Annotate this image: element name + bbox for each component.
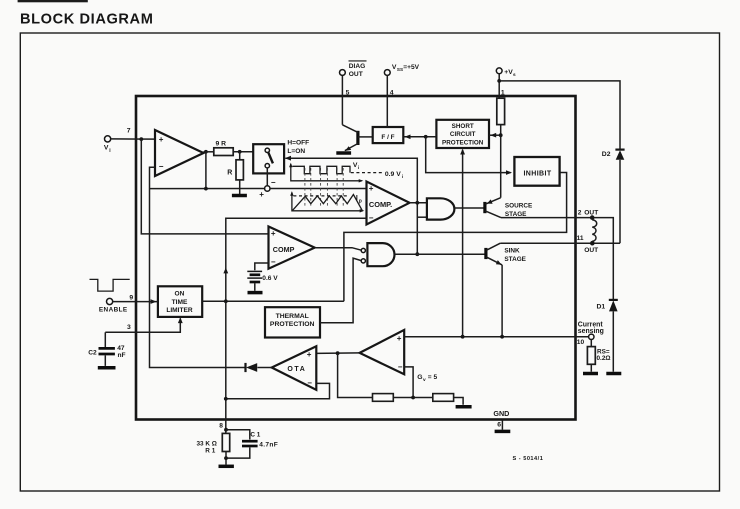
- wire summing node to COMP1 +: [270, 188, 367, 190]
- wire summing line: [150, 188, 265, 190]
- svg-text:GND: GND: [493, 409, 509, 418]
- svg-text:=+5V: =+5V: [403, 64, 419, 71]
- ground pin 6: [495, 430, 511, 434]
- wire 9R to switch: [233, 151, 253, 153]
- svg-text:CIRCUIT: CIRCUIT: [450, 131, 476, 138]
- svg-text:ON: ON: [175, 291, 185, 298]
- summing node circle: [259, 178, 276, 199]
- wire SCP sense vertical: [460, 149, 465, 337]
- enable pulse glyph: [90, 279, 130, 291]
- svg-text:OUT: OUT: [584, 209, 598, 216]
- node divider tap: [238, 150, 242, 154]
- title BLOCK DIAGRAM: [20, 12, 153, 28]
- svg-text:−: −: [271, 178, 276, 187]
- wire SCP to Vs rail: [489, 133, 501, 138]
- battery 0.6V: [247, 271, 278, 290]
- node pin8 top: [224, 428, 228, 432]
- wire Gv output to OTA plus: [316, 352, 359, 355]
- wire Gv minus divider: [404, 367, 413, 398]
- ground under R: [232, 194, 247, 198]
- node F/F inhibit branch: [424, 135, 428, 139]
- svg-text:S - 5014/1: S - 5014/1: [513, 456, 544, 462]
- svg-text:2: 2: [578, 209, 582, 216]
- wire timing vertical pin 8: [225, 301, 227, 433]
- switch box: [253, 140, 309, 174]
- svg-text:+: +: [259, 190, 264, 199]
- resistor RS: [587, 340, 610, 365]
- svg-text:11: 11: [577, 235, 584, 242]
- wire switch control from COMP1 output: [285, 156, 418, 254]
- svg-text:OUT: OUT: [349, 71, 363, 78]
- node OTA plus branch: [336, 351, 340, 355]
- svg-text:nF: nF: [118, 352, 126, 359]
- node op-amp output: [204, 150, 208, 154]
- wire +Vs to D2: [499, 81, 620, 149]
- svg-text:7: 7: [127, 128, 131, 135]
- wire to INHIBIT: [426, 137, 512, 175]
- svg-text:BLOCK DIAGRAM: BLOCK DIAGRAM: [20, 12, 153, 28]
- dashed 0.9Vi level: [351, 171, 403, 180]
- svg-text:D2: D2: [602, 151, 611, 158]
- wire enable: [112, 299, 157, 304]
- wire op-amp output to 9R: [204, 151, 214, 153]
- terminal Vss pin 4: [384, 64, 419, 97]
- svg-text:PROTECTION: PROTECTION: [442, 139, 484, 146]
- svg-text:33 K Ω: 33 K Ω: [197, 440, 217, 447]
- svg-text:0.9 V: 0.9 V: [385, 171, 401, 178]
- transistor source stage: [485, 198, 533, 218]
- svg-text:STAGE: STAGE: [505, 211, 527, 218]
- pin 6 GND: [493, 409, 509, 430]
- wire R1 bottom to ground: [225, 452, 227, 465]
- box INHIBIT: [514, 157, 559, 186]
- svg-text:OUT: OUT: [584, 247, 598, 254]
- ground R1: [219, 465, 234, 469]
- svg-text:SINK: SINK: [504, 247, 520, 254]
- node R1 C1 bottom: [224, 456, 228, 460]
- svg-text:+: +: [369, 184, 374, 193]
- svg-text:+: +: [307, 350, 312, 359]
- wire divider top: [338, 353, 373, 397]
- comparator COMP2: [269, 227, 315, 269]
- node AND2 output tie: [415, 252, 419, 256]
- svg-text:−: −: [271, 257, 276, 266]
- wire sink emitter to sense: [501, 265, 503, 337]
- dash-dot sampling verticals: [305, 168, 343, 208]
- wire Vi to COMP2 +: [141, 139, 268, 234]
- svg-text:v: v: [423, 378, 426, 383]
- waveform Vi square plot: [289, 162, 363, 183]
- wire RS to ground: [590, 364, 592, 371]
- node divider mid: [411, 396, 415, 400]
- svg-text:COMP: COMP: [273, 245, 295, 254]
- box thermal protection: [265, 307, 320, 337]
- node timing rail: [224, 299, 228, 303]
- svg-text:−: −: [398, 362, 403, 371]
- box ON TIME LIMITER: [158, 286, 202, 317]
- ground battery: [248, 291, 263, 295]
- ground C2: [98, 366, 116, 370]
- diode OTA output: [246, 363, 272, 372]
- svg-text:INHIBIT: INHIBIT: [523, 170, 551, 177]
- comparator COMP1: [367, 182, 410, 225]
- wire pin4 to F/F: [386, 75, 388, 127]
- wire source collector to OUT2: [501, 218, 613, 300]
- svg-text:SOURCE: SOURCE: [505, 202, 533, 209]
- resistor RB: [433, 394, 454, 402]
- capacitor C2: [88, 332, 125, 366]
- drawing number: [513, 456, 544, 462]
- wire SCP to F/F: [403, 135, 436, 140]
- svg-text:0.2Ω: 0.2Ω: [597, 355, 611, 362]
- node +Vs branch: [497, 79, 501, 83]
- svg-text:s: s: [513, 73, 516, 78]
- capacitor C1: [226, 430, 278, 458]
- ground diag emitter: [336, 151, 351, 155]
- wire sink collector to OUT11: [500, 242, 620, 244]
- svg-text:THERMAL: THERMAL: [276, 313, 309, 320]
- ground RS: [583, 372, 598, 376]
- wire AND2 output to sink base: [395, 253, 486, 255]
- svg-text:i: i: [358, 165, 359, 171]
- box short circuit protection: [436, 120, 489, 148]
- node Vi tap: [139, 137, 143, 141]
- svg-text:LIMITER: LIMITER: [166, 307, 193, 314]
- error amp Gv: [360, 330, 438, 383]
- svg-text:4: 4: [390, 90, 394, 97]
- svg-text:C 1: C 1: [250, 431, 260, 438]
- svg-text:C2: C2: [88, 350, 97, 357]
- svg-text:R: R: [227, 170, 232, 177]
- resistor RA: [373, 394, 394, 402]
- wire OTA minus: [226, 383, 330, 398]
- svg-text:3: 3: [127, 324, 131, 331]
- svg-text:= 5: = 5: [428, 374, 438, 381]
- resistor 9R: [214, 141, 233, 156]
- svg-text:G: G: [417, 374, 422, 381]
- wire output vertical: [205, 152, 207, 189]
- wire feedback / OTA injection rail: [150, 167, 246, 367]
- wire pin5: [341, 75, 343, 124]
- svg-text:5: 5: [346, 90, 350, 97]
- wire RA to RB: [393, 397, 433, 399]
- svg-text:STAGE: STAGE: [504, 256, 526, 263]
- box F/F: [373, 127, 404, 143]
- ground D1: [606, 372, 621, 376]
- diode D2: [602, 150, 625, 160]
- terminal OUT pin 11: [577, 235, 599, 254]
- ground RB: [456, 405, 472, 409]
- svg-text:9: 9: [129, 294, 133, 301]
- wire COMP1 - input: [226, 218, 367, 301]
- svg-text:+: +: [397, 334, 402, 343]
- terminal OUT pin 2: [578, 209, 598, 220]
- svg-text:4.7nF: 4.7nF: [259, 442, 278, 449]
- wire +Vs down: [498, 74, 500, 99]
- label pin 8: [219, 422, 223, 429]
- terminal Vi pin 7: [104, 128, 131, 154]
- svg-text:ENABLE: ENABLE: [99, 307, 128, 314]
- wire COMP2 output to AND2: [315, 248, 362, 251]
- node SCP rail: [499, 133, 503, 137]
- wire R to ground: [239, 180, 241, 194]
- svg-text:PROTECTION: PROTECTION: [270, 321, 315, 328]
- svg-text:I: I: [356, 195, 358, 202]
- svg-text:OTA: OTA: [287, 366, 306, 373]
- OTA amp: [272, 346, 317, 390]
- resistor pin1 sense: [497, 98, 505, 124]
- wire on-time output: [202, 300, 344, 302]
- svg-text:0.6 V: 0.6 V: [262, 275, 278, 282]
- header artifact rule: [18, 0, 88, 2]
- node OTA feedback tie: [224, 397, 228, 401]
- svg-text:SHORT: SHORT: [452, 123, 474, 130]
- wire thermal to AND2: [320, 258, 361, 323]
- terminal ENABLE pin 9: [99, 294, 133, 313]
- svg-text:L=ON: L=ON: [287, 148, 305, 155]
- svg-text:DIAG: DIAG: [349, 63, 365, 70]
- svg-text:−: −: [159, 162, 164, 171]
- svg-text:8: 8: [219, 422, 223, 429]
- arrow sawtooth up: [223, 268, 228, 274]
- svg-text:R 1: R 1: [205, 448, 215, 455]
- svg-text:1: 1: [501, 90, 505, 97]
- wire sense line to pin 10: [404, 336, 588, 338]
- svg-text:+: +: [271, 229, 276, 238]
- wire RB to ground: [454, 398, 464, 405]
- wire INHIBIT to sink gate rail: [344, 173, 567, 302]
- svg-text:6: 6: [497, 422, 501, 429]
- svg-text:H=OFF: H=OFF: [287, 140, 309, 147]
- svg-text:10: 10: [577, 339, 585, 346]
- node output-feedback junction: [204, 187, 208, 191]
- wire AND1 lower input: [417, 216, 427, 218]
- svg-text:COMP.: COMP.: [369, 200, 392, 209]
- wire switch to summing node: [266, 168, 268, 186]
- svg-text:−: −: [369, 213, 374, 222]
- inductor load coil: [592, 220, 597, 241]
- node sink emitter sense: [500, 335, 504, 339]
- svg-text:V: V: [104, 145, 109, 152]
- wire COMP1 output: [410, 202, 427, 204]
- IC package box: [136, 96, 576, 420]
- svg-text:F / F: F / F: [381, 134, 394, 141]
- wire D1 to ground: [612, 311, 614, 371]
- transistor diag output: [342, 125, 372, 151]
- svg-text:−: −: [307, 379, 312, 388]
- AND gate sink drive: [361, 243, 394, 266]
- resistor R1: [197, 433, 230, 454]
- terminal current sensing pin 10: [577, 321, 604, 346]
- wire Vi input: [111, 138, 155, 140]
- transistor sink stage: [486, 243, 527, 265]
- svg-text:i: i: [402, 174, 403, 180]
- wire pin 3 to on-time: [105, 317, 182, 332]
- wire AND1 output to source base: [455, 207, 485, 209]
- svg-text:D1: D1: [597, 303, 606, 310]
- diode D1: [597, 300, 618, 312]
- svg-text:+: +: [159, 135, 164, 144]
- node SCP sense: [461, 335, 465, 339]
- wire D2 to out 11 rail: [619, 160, 621, 243]
- svg-text:TIME: TIME: [172, 299, 188, 306]
- AND gate source drive: [427, 198, 455, 219]
- wire Vs rail to source emitter: [500, 125, 502, 198]
- op-amp input buffer: [155, 130, 204, 176]
- svg-text:SS: SS: [397, 67, 403, 72]
- wire COMP2 - input: [255, 263, 269, 270]
- waveform Ip sawtooth plot: [290, 191, 364, 212]
- node COMP1 output: [415, 201, 419, 205]
- svg-text:9 R: 9 R: [216, 141, 227, 148]
- svg-text:sensing: sensing: [578, 328, 604, 335]
- terminal DIAG OUT pin 5: [340, 61, 367, 97]
- resistor R: [227, 152, 243, 180]
- svg-text:p: p: [359, 199, 362, 205]
- svg-text:+V: +V: [504, 69, 513, 76]
- terminal +Vs pin 1: [496, 68, 516, 97]
